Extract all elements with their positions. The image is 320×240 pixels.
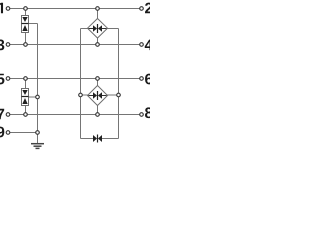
wire bottom loop right xyxy=(102,138,119,140)
suppressor diode inside D1: left triangle xyxy=(93,25,97,31)
suppressor diode inside D2: left triangle xyxy=(93,92,97,98)
junction node line5/GDT2 xyxy=(24,77,28,81)
junction node ground rail / terminal 9 xyxy=(36,131,40,135)
diode bridge D1 diamond xyxy=(88,19,108,39)
terminal circle 1 xyxy=(6,7,10,11)
pin label 5 xyxy=(0,74,4,85)
wire bridge D2 top stub xyxy=(97,79,99,86)
wire line 3-4 xyxy=(10,44,140,46)
diode bridge D2 diamond xyxy=(88,86,108,106)
wire GDT2 top stub xyxy=(25,79,27,89)
wire line 5-6 xyxy=(10,78,140,80)
GDT1 bottom electrode arrow xyxy=(22,25,27,31)
terminal circle 8 xyxy=(140,113,144,117)
wire bridge D2 right arm xyxy=(107,94,119,96)
junction node left rail / D2 arm xyxy=(79,93,83,97)
junction node line7/D2 xyxy=(96,113,100,117)
suppressor diode inside D1: right triangle xyxy=(98,25,102,31)
wire GDT1 top stub xyxy=(25,9,27,16)
pin label 1 xyxy=(0,3,3,13)
terminal circle 6 xyxy=(140,77,144,81)
wire bridge D2 left arm xyxy=(81,94,89,96)
suppressor diode inside D1: left lead xyxy=(89,28,94,30)
suppressor diode inside D1: right lead xyxy=(102,28,107,30)
GDT2 top electrode arrow xyxy=(22,90,27,95)
junction node line3/GDT1 xyxy=(24,43,28,47)
suppressor diode TVS3 right triangle xyxy=(98,135,102,142)
ground rail (GDT centre taps to earth) xyxy=(37,24,39,144)
pin label 7 xyxy=(0,109,4,119)
junction node line7/GDT2 xyxy=(24,113,28,117)
junction node right rail / D2 arm xyxy=(117,93,121,97)
suppressor diode inside D2: right triangle xyxy=(98,92,102,98)
GDT1 centre electrode bar xyxy=(22,23,29,25)
suppressor diode inside D2: left lead xyxy=(89,95,94,97)
junction node line3/D1 xyxy=(96,43,100,47)
wire GDT2 centre tap xyxy=(29,96,38,98)
pin label 6 xyxy=(145,74,152,85)
left bridge rail xyxy=(80,29,82,139)
pin label 4 xyxy=(145,40,153,50)
junction node line5/D2 xyxy=(96,77,100,81)
pin label 8 xyxy=(145,107,153,118)
wire bridge D1 top stub xyxy=(97,9,99,19)
suppressor diode TVS3 centre bar xyxy=(97,135,99,143)
junction node line1/D1 xyxy=(96,7,100,11)
junction node line1/GDT1 xyxy=(24,7,28,11)
wire bridge D2 bottom stub xyxy=(97,105,99,115)
wire line 7-8 xyxy=(10,114,140,116)
gas discharge tube GDT2 body xyxy=(22,89,29,106)
terminal circle 2 xyxy=(140,7,144,11)
terminal circle 7 xyxy=(6,113,10,117)
wire GDT2 bottom stub xyxy=(25,106,27,115)
wire GDT1 centre tap xyxy=(29,23,38,25)
pin label 3 xyxy=(0,39,4,50)
suppressor diode inside D2: centre bar xyxy=(97,91,99,100)
wire bridge D1 left arm xyxy=(81,28,89,30)
GDT1 top electrode arrow xyxy=(22,17,27,22)
terminal circle 4 xyxy=(140,43,144,47)
wire bottom loop left xyxy=(81,138,94,140)
GDT2 centre electrode bar xyxy=(22,96,29,98)
pin label 2 xyxy=(145,3,152,14)
gas discharge tube GDT1 body xyxy=(22,16,29,33)
junction node ground rail / GDT2 tap xyxy=(36,95,40,99)
suppressor diode TVS3 left triangle xyxy=(93,135,97,142)
wire terminal 9 to ground rail xyxy=(10,132,38,134)
earth ground symbol xyxy=(31,143,44,145)
pin label 9 xyxy=(0,127,4,138)
suppressor diode inside D1: centre bar xyxy=(97,24,99,33)
GDT2 bottom electrode arrow xyxy=(22,98,27,104)
suppressor diode inside D2: right lead xyxy=(102,95,107,97)
terminal circle 5 xyxy=(6,77,10,81)
right bridge rail xyxy=(118,29,120,139)
terminal circle 3 xyxy=(6,43,10,47)
terminal circle 9 xyxy=(6,131,10,135)
wire line 1-2 xyxy=(10,8,140,10)
wire bridge D1 bottom stub xyxy=(97,38,99,45)
wire GDT1 bottom stub xyxy=(25,33,27,45)
wire bridge D1 right arm xyxy=(107,28,119,30)
